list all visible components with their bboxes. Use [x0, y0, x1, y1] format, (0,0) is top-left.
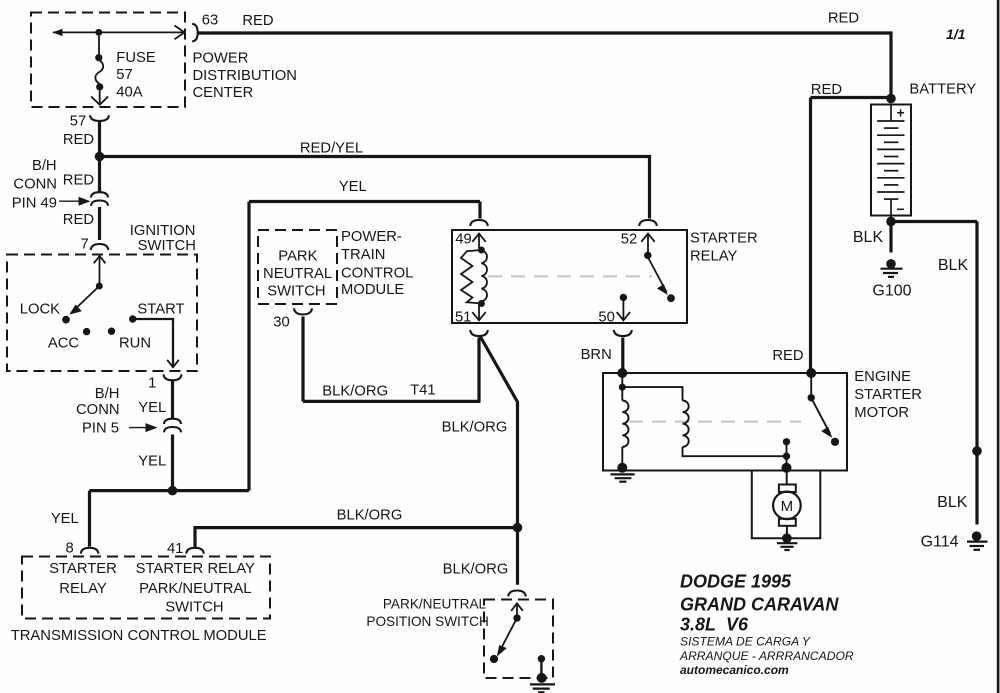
svg-text:POSITION SWITCH: POSITION SWITCH	[366, 614, 488, 629]
svg-text:G100: G100	[872, 282, 911, 299]
svg-text:BLK: BLK	[937, 494, 968, 511]
svg-text:3.8L V6: 3.8L V6	[680, 615, 749, 635]
svg-text:PIN 49: PIN 49	[12, 195, 57, 211]
svg-text:TRAIN: TRAIN	[341, 247, 385, 263]
svg-text:BLK: BLK	[853, 229, 884, 246]
svg-text:LOCK: LOCK	[20, 302, 60, 318]
svg-text:BLK/ORG: BLK/ORG	[322, 383, 388, 399]
svg-text:BLK/ORG: BLK/ORG	[442, 419, 508, 435]
svg-text:POWER: POWER	[193, 51, 249, 67]
svg-text:+: +	[897, 105, 905, 121]
svg-text:M: M	[781, 498, 794, 515]
svg-text:DISTRIBUTION: DISTRIBUTION	[193, 68, 297, 84]
svg-text:SWITCH: SWITCH	[138, 238, 196, 254]
svg-text:1: 1	[148, 376, 156, 392]
svg-text:SWITCH: SWITCH	[165, 599, 223, 615]
svg-text:G114: G114	[921, 533, 959, 550]
svg-text:−: −	[897, 201, 905, 217]
svg-text:RELAY: RELAY	[690, 249, 738, 265]
svg-text:YEL: YEL	[138, 454, 166, 470]
svg-text:41: 41	[167, 541, 183, 557]
svg-text:STARTER: STARTER	[49, 561, 117, 577]
svg-text:8: 8	[65, 541, 73, 557]
svg-text:30: 30	[273, 315, 289, 331]
svg-text:PIN 5: PIN 5	[82, 421, 119, 437]
svg-text:ENGINE: ENGINE	[854, 369, 911, 385]
svg-text:SISTEMA DE CARGA Y: SISTEMA DE CARGA Y	[680, 635, 811, 649]
svg-text:POWER-: POWER-	[341, 229, 402, 245]
svg-text:YEL: YEL	[138, 400, 166, 416]
svg-text:BLK/ORG: BLK/ORG	[443, 562, 509, 578]
svg-text:PARK/NEUTRAL: PARK/NEUTRAL	[139, 581, 251, 597]
svg-text:B/H: B/H	[32, 158, 57, 174]
svg-text:RED: RED	[811, 82, 842, 98]
svg-text:RED: RED	[63, 212, 94, 228]
svg-text:DODGE 1995: DODGE 1995	[680, 572, 792, 592]
svg-text:STARTER: STARTER	[690, 231, 758, 247]
svg-text:50: 50	[598, 310, 614, 326]
svg-text:CONN: CONN	[76, 402, 120, 418]
svg-text:52: 52	[621, 232, 637, 248]
svg-text:RED: RED	[772, 348, 803, 364]
svg-text:PARK: PARK	[278, 249, 317, 265]
svg-text:TRANSMISSION CONTROL MODULE: TRANSMISSION CONTROL MODULE	[11, 628, 267, 644]
svg-text:7: 7	[80, 237, 88, 253]
svg-text:57: 57	[116, 67, 132, 83]
svg-text:IGNITION: IGNITION	[130, 223, 196, 239]
svg-text:49: 49	[455, 232, 471, 248]
svg-text:YEL: YEL	[51, 511, 79, 527]
svg-text:SWITCH: SWITCH	[267, 284, 325, 300]
svg-text:51: 51	[455, 310, 471, 326]
svg-text:PARK/NEUTRAL: PARK/NEUTRAL	[383, 597, 487, 612]
svg-text:BATTERY: BATTERY	[909, 81, 976, 97]
svg-text:CONTROL: CONTROL	[341, 266, 413, 282]
svg-text:ARRANQUE - ARRRANCADOR: ARRANQUE - ARRRANCADOR	[679, 649, 854, 663]
svg-text:CENTER: CENTER	[193, 85, 254, 101]
svg-text:BLK/ORG: BLK/ORG	[337, 508, 403, 524]
svg-text:RED: RED	[828, 11, 859, 27]
svg-text:automecanico.com: automecanico.com	[680, 663, 789, 677]
svg-text:CONN: CONN	[13, 177, 57, 193]
svg-text:RUN: RUN	[119, 336, 151, 352]
svg-text:RED: RED	[242, 13, 273, 29]
svg-text:MODULE: MODULE	[341, 282, 404, 298]
svg-text:40A: 40A	[116, 85, 142, 101]
svg-text:RED: RED	[63, 132, 94, 148]
svg-text:STARTER RELAY: STARTER RELAY	[136, 561, 255, 577]
svg-text:NEUTRAL: NEUTRAL	[263, 266, 332, 282]
svg-text:B/H: B/H	[95, 386, 120, 402]
svg-text:BLK: BLK	[938, 257, 969, 274]
svg-text:YEL: YEL	[339, 179, 367, 195]
svg-text:T41: T41	[410, 382, 436, 398]
svg-text:63: 63	[202, 13, 218, 29]
svg-text:1/1: 1/1	[946, 26, 966, 42]
svg-text:RED/YEL: RED/YEL	[300, 140, 363, 156]
svg-text:RELAY: RELAY	[59, 581, 107, 597]
svg-text:STARTER: STARTER	[854, 387, 922, 403]
svg-text:RED: RED	[63, 173, 94, 189]
svg-text:FUSE: FUSE	[116, 50, 156, 66]
svg-text:ACC: ACC	[48, 336, 80, 352]
svg-text:57: 57	[70, 114, 86, 130]
svg-text:START: START	[137, 302, 184, 318]
svg-text:MOTOR: MOTOR	[854, 405, 909, 421]
svg-text:BRN: BRN	[581, 347, 612, 363]
svg-text:GRAND CARAVAN: GRAND CARAVAN	[680, 595, 839, 615]
